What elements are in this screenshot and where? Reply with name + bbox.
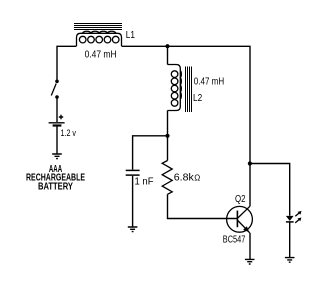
svg-text:Q2: Q2 bbox=[235, 194, 246, 205]
svg-text:1.2 v: 1.2 v bbox=[61, 128, 77, 139]
svg-text:0.47 mH: 0.47 mH bbox=[194, 76, 224, 88]
svg-text:0.47 mH: 0.47 mH bbox=[85, 48, 117, 60]
svg-text:BATTERY: BATTERY bbox=[38, 181, 73, 192]
svg-text:L1: L1 bbox=[126, 29, 135, 41]
svg-text:L2: L2 bbox=[193, 92, 202, 104]
svg-text:BC547: BC547 bbox=[223, 235, 246, 246]
svg-text:Ω: Ω bbox=[194, 174, 200, 183]
svg-text:1 nF: 1 nF bbox=[135, 177, 154, 188]
svg-text:6.8k: 6.8k bbox=[174, 173, 195, 184]
